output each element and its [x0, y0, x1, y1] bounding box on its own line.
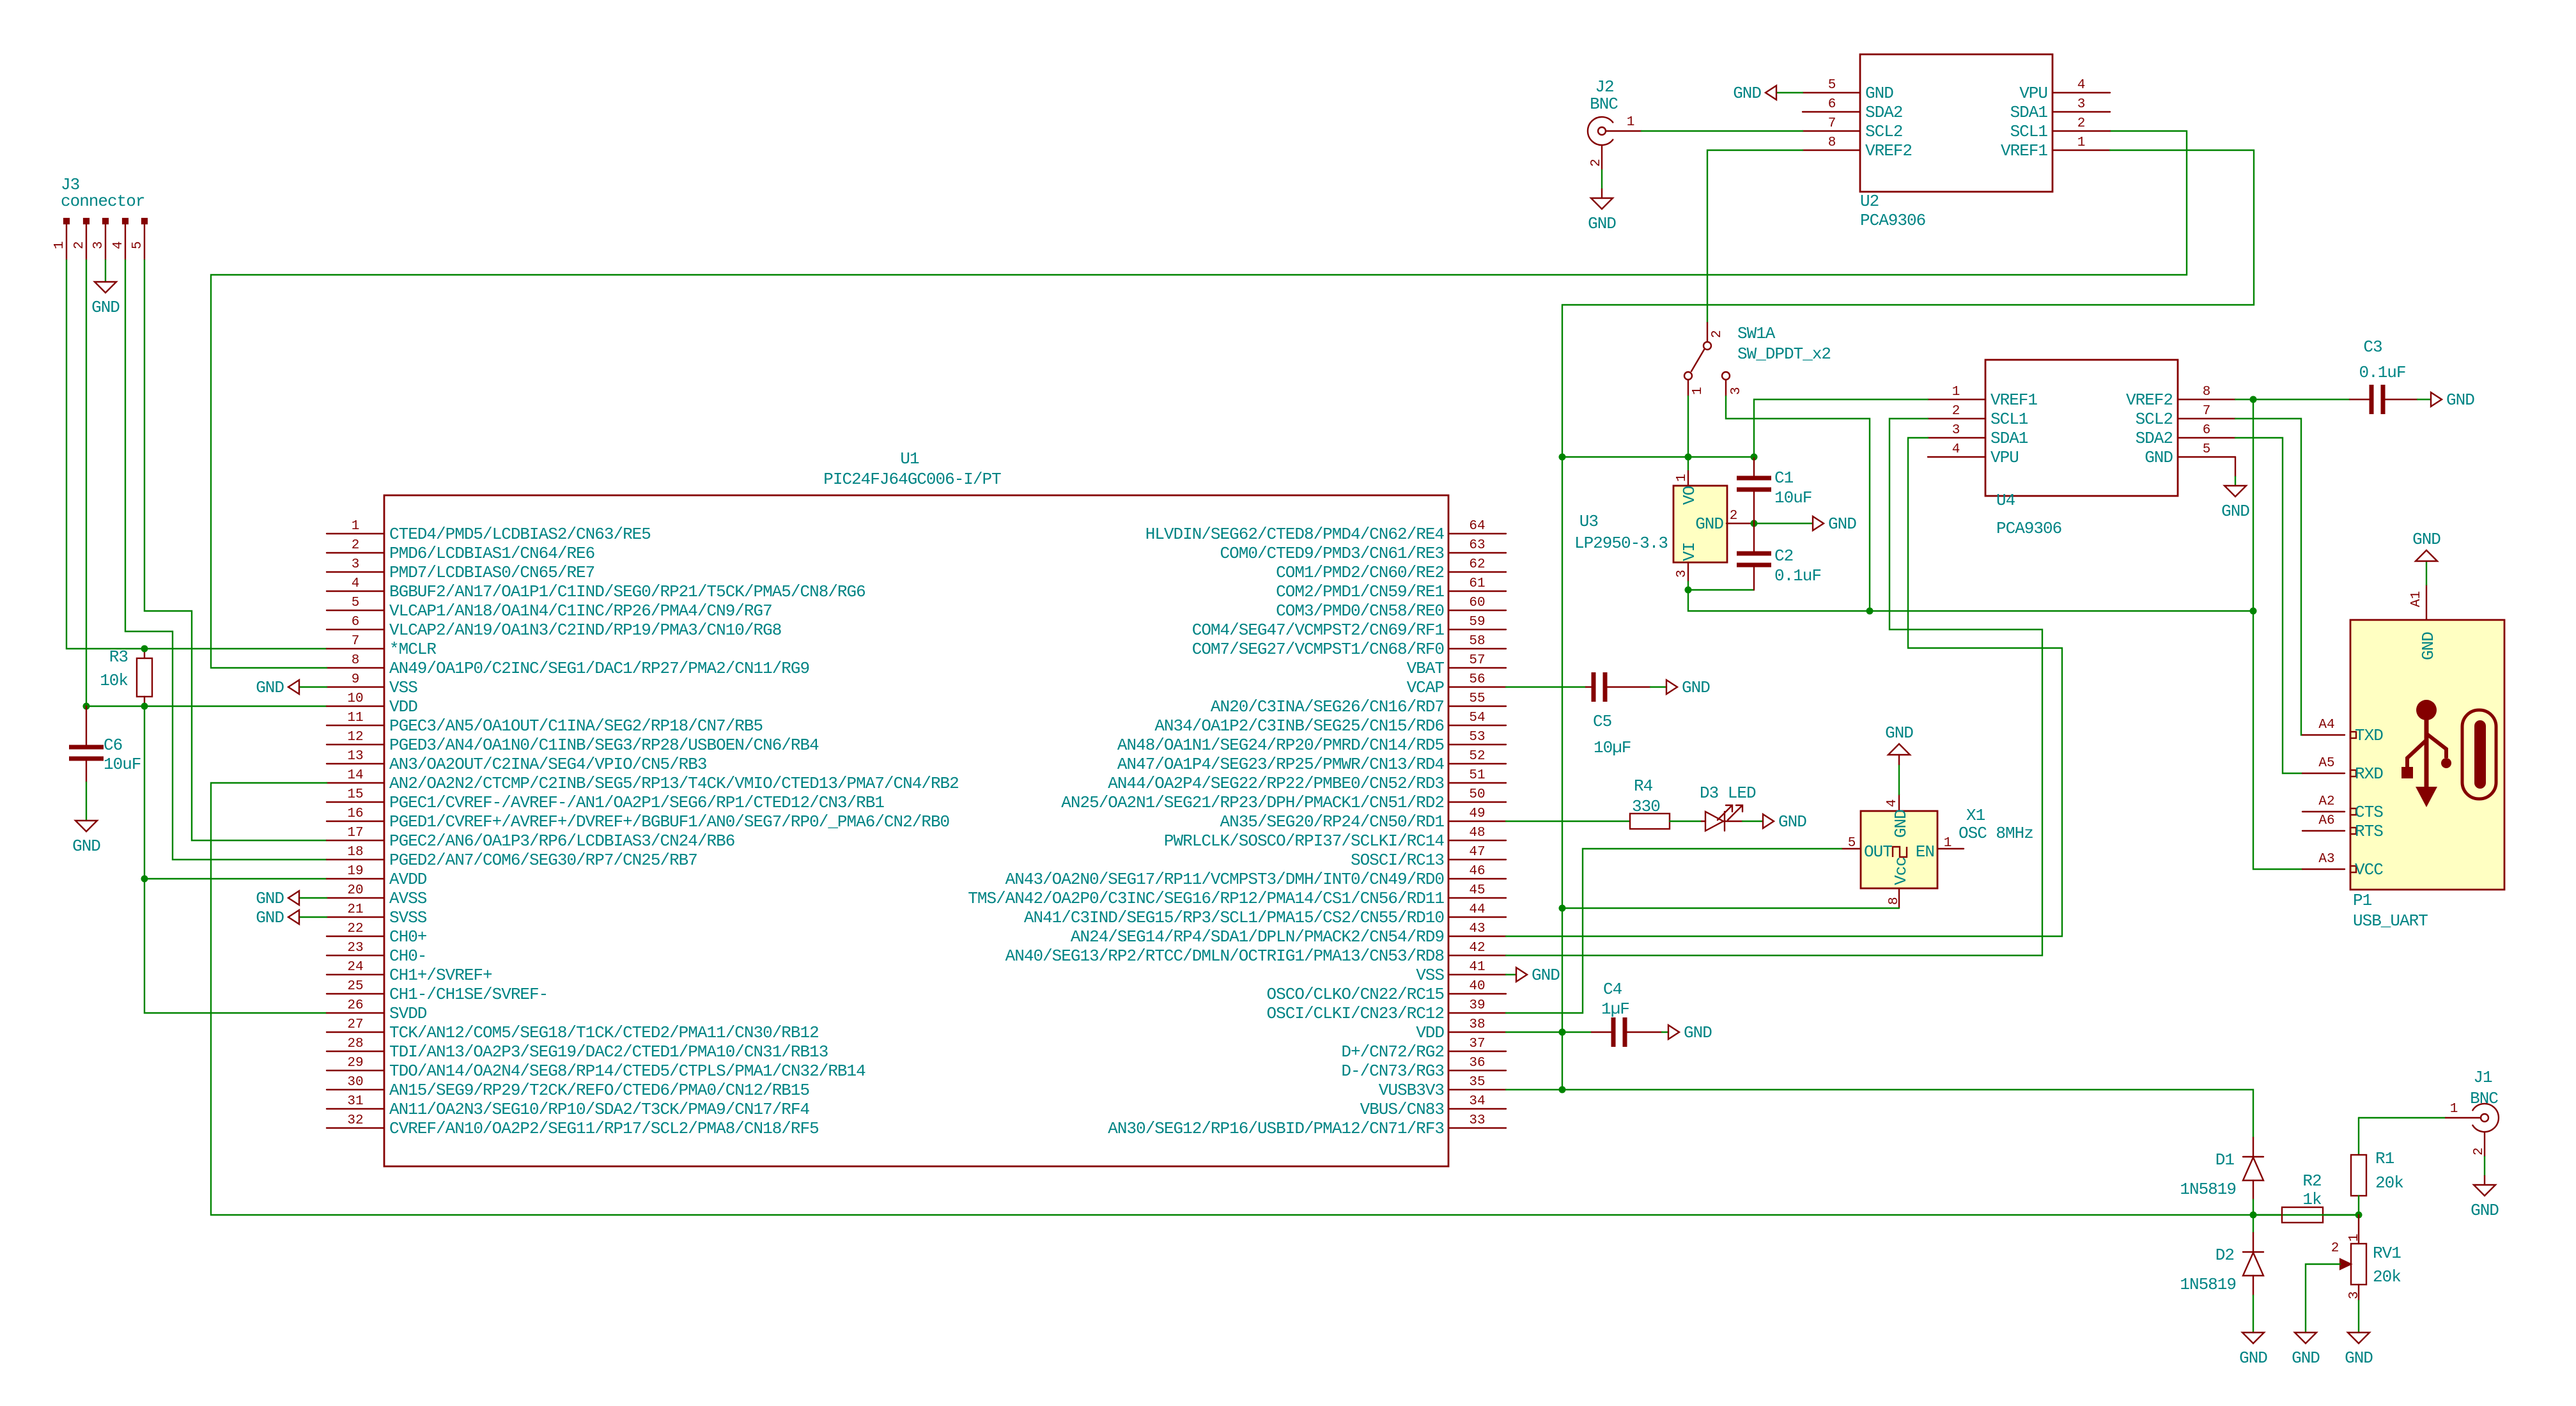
svg-text:22: 22 — [347, 922, 363, 936]
svg-text:PGED3/AN4/OA1N0/C1INB/SEG3/RP2: PGED3/AN4/OA1N0/C1INB/SEG3/RP28/USBOEN/C… — [389, 736, 819, 755]
P1 pin A4 TXD — [2302, 734, 2345, 736]
junction J3.2 / C6 — [83, 703, 90, 710]
junction SW pin3 / 5V rail — [1866, 608, 1874, 615]
svg-text:D+/CN72/RG2: D+/CN72/RG2 — [1341, 1042, 1444, 1062]
svg-text:AN49/OA1P0/C2INC/SEG1/DAC1/RP2: AN49/OA1P0/C2INC/SEG1/DAC1/RP27/PMA2/CN1… — [389, 659, 809, 678]
U2 pin 2 SCL1 — [2052, 130, 2110, 132]
U1 pin 34 VBUS/CN83 — [1448, 1108, 1506, 1109]
svg-text:VBUS/CN83: VBUS/CN83 — [1360, 1100, 1444, 1119]
svg-text:GND: GND — [1684, 1023, 1712, 1042]
ground J2 — [1591, 198, 1613, 209]
capacitor C5 — [1586, 686, 1594, 688]
svg-text:7: 7 — [1828, 116, 1836, 131]
U1 pin 4 BGBUF2/AN17/OA1P1/C1IND/SEG0/RP21/T5CK/PMA5/CN8/RG6 — [327, 591, 384, 592]
svg-text:R2: R2 — [2302, 1171, 2321, 1191]
SW1A pin 3 — [1722, 372, 1730, 380]
junction VI / C2 bottom — [1685, 587, 1692, 594]
svg-text:5: 5 — [352, 596, 360, 610]
U1 pin 23 CH0- — [327, 955, 384, 956]
svg-text:3: 3 — [2347, 1291, 2362, 1299]
J2 pin 2 — [1601, 145, 1602, 170]
potentiometer RV1 — [2358, 1215, 2359, 1244]
U1 pin 46 AN43/OA2N0/SEG17/RP11/VCMPST3/DMH/INT0/CN49/RD0 — [1448, 878, 1506, 879]
J3 pin 5 — [142, 219, 147, 224]
U1 pin 54 AN34/OA1P2/C3INB/SEG25/CN15/RD6 — [1448, 725, 1506, 726]
svg-text:A2: A2 — [2318, 794, 2334, 809]
J3 pin 2 — [84, 219, 89, 224]
svg-text:A5: A5 — [2318, 756, 2334, 771]
svg-text:2: 2 — [1730, 509, 1738, 523]
svg-text:GND: GND — [2419, 632, 2438, 660]
svg-text:EN: EN — [1916, 842, 1934, 861]
wire U1 pin14 AN2 to bottom rail — [211, 783, 2359, 1215]
U1 pin 13 AN3/OA2OUT/C2INA/SEG4/VPIO/CN5/RB3 — [327, 763, 384, 764]
junction 3.3V rail / X1 Vcc — [1559, 905, 1566, 912]
svg-text:A4: A4 — [2318, 718, 2334, 732]
svg-text:SVDD: SVDD — [389, 1004, 427, 1023]
svg-text:GND: GND — [256, 678, 284, 697]
svg-text:CTS: CTS — [2355, 803, 2383, 822]
U3 pin 3 VI — [1688, 562, 1689, 582]
svg-text:26: 26 — [347, 998, 363, 1013]
svg-text:U2: U2 — [1860, 192, 1879, 211]
svg-text:1k: 1k — [2302, 1190, 2322, 1209]
svg-text:AN3/OA2OUT/C2INA/SEG4/VPIO/CN5: AN3/OA2OUT/C2INA/SEG4/VPIO/CN5/RB3 — [389, 755, 707, 774]
svg-text:1: 1 — [2077, 135, 2086, 150]
svg-text:5: 5 — [2203, 442, 2211, 457]
svg-text:VLCAP2/AN19/OA1N3/C2IND/RP19/P: VLCAP2/AN19/OA1N3/C2IND/RP19/PMA3/CN10/R… — [389, 621, 781, 640]
U4 pin 7 SCL2 — [2178, 418, 2235, 419]
svg-text:42: 42 — [1469, 941, 1485, 955]
svg-text:AN34/OA1P2/C3INB/SEG25/CN15/RD: AN34/OA1P2/C3INB/SEG25/CN15/RD6 — [1154, 716, 1444, 736]
U1 pin 8 AN49/OA1P0/C2INC/SEG1/DAC1/RP27/PMA2/CN11/RG9 — [327, 667, 384, 668]
svg-text:40: 40 — [1469, 979, 1485, 994]
svg-text:COM1/PMD2/CN60/RE2: COM1/PMD2/CN60/RE2 — [1276, 563, 1444, 582]
svg-text:VLCAP1/AN18/OA1N4/C1INC/RP26/P: VLCAP1/AN18/OA1N4/C1INC/RP26/PMA4/CN9/RG… — [389, 601, 772, 621]
wire 5V to P1 VCC — [2253, 611, 2302, 869]
diode D3 LED — [1702, 821, 1705, 822]
svg-text:2: 2 — [1710, 330, 1725, 338]
svg-text:SVSS: SVSS — [389, 908, 427, 927]
wire VREF2 down to 5V rail — [2253, 399, 2254, 611]
svg-text:C2: C2 — [1774, 546, 1793, 566]
U1 pin 40 OSCO/CLKO/CN22/RC15 — [1448, 993, 1506, 994]
svg-text:OSC 8MHz: OSC 8MHz — [1959, 824, 2033, 843]
P1 pin A5 RXD — [2302, 773, 2345, 774]
svg-text:AN15/SEG9/RP29/T2CK/REFO/CTED6: AN15/SEG9/RP29/T2CK/REFO/CTED6/PMA0/CN12… — [389, 1081, 809, 1100]
U1 pin 61 COM2/PMD1/CN59/RE1 — [1448, 591, 1506, 592]
svg-text:AN25/OA2N1/SEG21/RP23/DPH/PMAC: AN25/OA2N1/SEG21/RP23/DPH/PMACK1/CN51/RD… — [1061, 793, 1444, 812]
voltage regulator U3 LP2950-3.3 — [1673, 486, 1727, 562]
svg-text:PMD7/LCDBIAS0/CN65/RE7: PMD7/LCDBIAS0/CN65/RE7 — [389, 563, 594, 582]
wire J3.4 to U1 pin18 — [125, 260, 327, 860]
svg-text:14: 14 — [347, 768, 363, 783]
wire C2 bottom link — [1688, 589, 1754, 591]
U1 pin 5 VLCAP1/AN18/OA1N4/C1INC/RP26/PMA4/CN9/RG7 — [327, 610, 384, 611]
U1 pin 64 HLVDIN/SEG62/CTED8/PMD4/CN62/RE4 — [1448, 533, 1506, 534]
svg-text:GND: GND — [1733, 84, 1761, 103]
U3 pin 1 VO — [1688, 471, 1689, 486]
U1 pin 43 AN24/SEG14/RP4/SDA1/DPLN/PMACK2/CN54/RD9 — [1448, 936, 1506, 937]
ground X1 — [1888, 744, 1910, 755]
svg-text:58: 58 — [1469, 634, 1485, 649]
svg-text:AVSS: AVSS — [389, 889, 427, 908]
U1 pin 28 TDI/AN13/OA2P3/SEG19/DAC2/CTED1/PMA10/CN31/RB13 — [327, 1051, 384, 1052]
wire VDD to U1 pin10 — [86, 706, 327, 707]
svg-text:9: 9 — [352, 672, 360, 687]
wire U4 SDA2 to P1 RXD — [2235, 438, 2302, 773]
ground D2 — [2242, 1333, 2264, 1343]
svg-text:A6: A6 — [2318, 814, 2334, 828]
svg-text:PCA9306: PCA9306 — [1996, 519, 2061, 538]
svg-text:8: 8 — [352, 653, 360, 668]
svg-text:VUSB3V3: VUSB3V3 — [1379, 1081, 1444, 1100]
svg-text:3: 3 — [91, 241, 106, 249]
junction R3 bottom / VDD — [141, 703, 148, 710]
svg-text:1: 1 — [1627, 115, 1635, 130]
svg-text:GND: GND — [2292, 1348, 2320, 1368]
svg-text:PIC24FJ64GC006-I/PT: PIC24FJ64GC006-I/PT — [823, 470, 1001, 489]
junction VDD / 3.3V rail — [1559, 1029, 1566, 1036]
U1 pin 16 PGED1/CVREF+/AVREF+/DVREF+/BGBUF1/AN0/SEG7/RP0/_PMA6/CN2/RB0 — [327, 821, 384, 822]
svg-text:5: 5 — [1828, 78, 1836, 93]
svg-text:TXD: TXD — [2355, 726, 2383, 745]
svg-text:48: 48 — [1469, 826, 1485, 840]
junction 3.3V rail / VUSB3V3 — [1559, 1086, 1566, 1093]
svg-text:AN2/OA2N2/CTCMP/C2INB/SEG5/RP1: AN2/OA2N2/CTCMP/C2INB/SEG5/RP13/T4CK/VMI… — [389, 774, 959, 793]
U1 pin 60 COM3/PMD0/CN58/RE0 — [1448, 610, 1506, 611]
wire U2 VREF1 to 3.3V rail — [1562, 150, 2254, 1090]
svg-text:4: 4 — [1885, 799, 1900, 807]
svg-text:34: 34 — [1469, 1094, 1485, 1109]
U1 pin 45 TMS/AN42/OA2P0/C3INC/SEG16/RP12/PMA14/CS1/CN56/RD11 — [1448, 897, 1506, 899]
svg-text:COM0/CTED9/PMD3/CN61/RE3: COM0/CTED9/PMD3/CN61/RE3 — [1220, 544, 1444, 563]
ground RV1 wiper — [2295, 1333, 2316, 1343]
svg-text:4: 4 — [2077, 78, 2086, 93]
svg-text:GND: GND — [1682, 678, 1710, 697]
svg-text:AN44/OA2P4/SEG22/RP22/PMBE0/CN: AN44/OA2P4/SEG22/RP22/PMBE0/CN52/RD3 — [1108, 774, 1444, 793]
ground flag U3 GND — [1813, 516, 1824, 530]
svg-text:COM4/SEG47/VCMPST2/CN69/RF1: COM4/SEG47/VCMPST2/CN69/RF1 — [1192, 621, 1445, 640]
U1 pin 56 VCAP — [1448, 686, 1506, 688]
svg-text:39: 39 — [1469, 998, 1485, 1013]
SW1A pin 1 — [1684, 372, 1692, 380]
svg-text:16: 16 — [347, 807, 363, 821]
svg-text:VREF2: VREF2 — [2126, 390, 2173, 410]
svg-text:49: 49 — [1469, 807, 1485, 821]
svg-text:57: 57 — [1469, 653, 1485, 668]
ground flag C4 — [1668, 1025, 1679, 1039]
svg-text:8: 8 — [2203, 385, 2211, 399]
U1 pin 50 AN25/OA2N1/SEG21/RP23/DPH/PMACK1/CN51/RD2 — [1448, 801, 1506, 803]
svg-text:43: 43 — [1469, 922, 1485, 936]
svg-text:3: 3 — [1729, 387, 1744, 395]
svg-text:31: 31 — [347, 1094, 363, 1109]
U1 pin 62 COM1/PMD2/CN60/RE2 — [1448, 571, 1506, 573]
svg-text:BNC: BNC — [2470, 1089, 2498, 1108]
U4 pin 5 GND — [2178, 456, 2235, 458]
svg-text:C1: C1 — [1774, 468, 1794, 488]
capacitor C6 — [86, 706, 87, 747]
wire SW1A pin3 to 5V rail — [1726, 396, 1870, 611]
svg-text:VO: VO — [1680, 486, 1699, 505]
ground flag U2 pin5 GND — [1776, 92, 1803, 93]
svg-text:VREF1: VREF1 — [2001, 141, 2047, 160]
wire U1 VUSB3V3 to D1 cathode — [1506, 1090, 2253, 1138]
wire U4 VREF2 to C3 — [2235, 399, 2350, 400]
junction C1 top — [1751, 454, 1758, 461]
svg-text:8: 8 — [1887, 897, 1902, 905]
svg-text:6: 6 — [2203, 423, 2211, 438]
X1 pin 5 OUT — [1842, 848, 1861, 849]
svg-text:PGEC2/AN6/OA1P3/RP6/LCDBIAS3/C: PGEC2/AN6/OA1P3/RP6/LCDBIAS3/CN24/RB6 — [389, 831, 734, 851]
svg-text:11: 11 — [347, 711, 363, 725]
U1 pin 59 COM4/SEG47/VCMPST2/CN69/RF1 — [1448, 629, 1506, 630]
ground flag C3 — [2431, 392, 2442, 406]
U1 pin 1 CTED4/PMD5/LCDBIAS2/CN63/RE5 — [327, 533, 384, 534]
junction AVDD tap — [141, 876, 148, 883]
X1 pin 8 Vcc — [1898, 888, 1900, 908]
svg-text:44: 44 — [1469, 902, 1485, 917]
capacitor C4 — [1592, 1031, 1613, 1033]
wire C3 to ground flag — [2417, 399, 2431, 400]
svg-text:HLVDIN/SEG62/CTED8/PMD4/CN62/R: HLVDIN/SEG62/CTED8/PMD4/CN62/RE4 — [1145, 525, 1445, 544]
svg-text:GND: GND — [1885, 723, 1913, 743]
svg-text:RV1: RV1 — [2373, 1244, 2401, 1263]
svg-text:C6: C6 — [104, 736, 122, 755]
svg-text:VREF1: VREF1 — [1990, 390, 2037, 410]
svg-text:GND: GND — [2446, 390, 2474, 410]
svg-text:60: 60 — [1469, 596, 1485, 610]
ground flag U1 pin41 — [1516, 968, 1527, 982]
U1 pin 19 AVDD — [327, 878, 384, 879]
svg-text:GND: GND — [1891, 810, 1911, 838]
svg-text:LP2950-3.3: LP2950-3.3 — [1574, 534, 1668, 553]
svg-text:GND: GND — [91, 298, 120, 317]
svg-text:COM7/SEG27/VCMPST1/CN68/RF0: COM7/SEG27/VCMPST1/CN68/RF0 — [1192, 640, 1444, 659]
capacitor C1 — [1753, 457, 1755, 478]
U1 pin 17 PGEC2/AN6/OA1P3/RP6/LCDBIAS3/CN24/RB6 — [327, 840, 384, 841]
ground flag C5 — [1666, 680, 1677, 694]
svg-text:PCA9306: PCA9306 — [1860, 211, 1925, 230]
ground RV1 pin3 — [2348, 1333, 2370, 1343]
svg-text:2: 2 — [1589, 158, 1604, 167]
U1 pin 35 VUSB3V3 — [1448, 1089, 1506, 1090]
svg-text:24: 24 — [347, 960, 363, 975]
svg-text:TDO/AN14/OA2N4/SEG8/RP14/CTED5: TDO/AN14/OA2N4/SEG8/RP14/CTED5/CTPLS/PMA… — [389, 1062, 865, 1081]
svg-text:AN41/C3IND/SEG15/RP3/SCL1/PMA1: AN41/C3IND/SEG15/RP3/SCL1/PMA15/CS2/CN55… — [1024, 908, 1444, 927]
U2 pin 7 SCL2 — [1803, 130, 1860, 132]
svg-text:1: 1 — [1691, 387, 1705, 395]
junction 3.3V rail / C4 VDD — [1559, 1029, 1566, 1036]
svg-text:PGED1/CVREF+/AVREF+/DVREF+/BGB: PGED1/CVREF+/AVREF+/DVREF+/BGBUF1/AN0/SE… — [389, 812, 949, 831]
svg-text:28: 28 — [347, 1037, 363, 1051]
svg-text:SW1A: SW1A — [1737, 324, 1776, 343]
svg-text:BGBUF2/AN17/OA1P1/C1IND/SEG0/R: BGBUF2/AN17/OA1P1/C1IND/SEG0/RP21/T5CK/P… — [389, 582, 865, 601]
svg-text:3: 3 — [1675, 569, 1689, 578]
svg-text:2: 2 — [2331, 1241, 2339, 1256]
ground C6 — [75, 821, 97, 831]
wire U1 pin41 VSS stub — [1506, 974, 1516, 975]
svg-text:18: 18 — [347, 845, 363, 860]
svg-text:7: 7 — [2203, 404, 2211, 419]
U1 pin 30 AN15/SEG9/RP29/T2CK/REFO/CTED6/PMA0/CN12/RB15 — [327, 1089, 384, 1090]
ground flag U1 pin9 VSS — [299, 686, 327, 688]
svg-text:59: 59 — [1469, 615, 1485, 630]
U4 pin 2 SCL1 — [1928, 418, 1985, 419]
svg-text:SDA2: SDA2 — [2136, 429, 2173, 448]
svg-text:OSCI/CLKI/CN23/RC12: OSCI/CLKI/CN23/RC12 — [1267, 1004, 1444, 1023]
svg-text:53: 53 — [1469, 730, 1485, 745]
svg-text:VREF2: VREF2 — [1865, 141, 1912, 160]
U1 pin 26 SVDD — [327, 1012, 384, 1014]
ground flag U1 pin20 AVSS — [299, 897, 327, 899]
U2 pin 5 GND — [1803, 92, 1860, 93]
U1 pin 42 AN40/SEG13/RP2/RTCC/DMLN/OCTRIG1/PMA13/CN53/RD8 — [1448, 955, 1506, 956]
svg-text:1: 1 — [2347, 1233, 2362, 1242]
svg-text:VPU: VPU — [2019, 84, 2047, 103]
svg-text:55: 55 — [1469, 691, 1485, 706]
J1 pin 1 — [2446, 1117, 2481, 1118]
svg-text:D-/CN73/RG3: D-/CN73/RG3 — [1341, 1062, 1444, 1081]
svg-text:62: 62 — [1469, 557, 1485, 572]
U2 pin 4 VPU — [2052, 92, 2110, 93]
svg-text:GND: GND — [2221, 502, 2249, 521]
U1 pin 6 VLCAP2/AN19/OA1N3/C2IND/RP19/PMA3/CN10/RG8 — [327, 629, 384, 630]
svg-text:TCK/AN12/COM5/SEG18/T1CK/CTED2: TCK/AN12/COM5/SEG18/T1CK/CTED2/PMA11/CN3… — [389, 1023, 819, 1042]
svg-text:37: 37 — [1469, 1037, 1485, 1051]
svg-text:VCAP: VCAP — [1407, 678, 1445, 697]
svg-text:1: 1 — [1675, 474, 1689, 482]
microcontroller U1 PIC24FJ64GC006-I/PT — [384, 495, 1448, 1166]
svg-text:35: 35 — [1469, 1075, 1485, 1090]
svg-text:330: 330 — [1632, 797, 1660, 816]
svg-text:1: 1 — [1944, 836, 1952, 851]
svg-text:CH1+/SVREF+: CH1+/SVREF+ — [389, 966, 492, 985]
U1 pin 33 AN30/SEG12/RP16/USBID/PMA12/CN71/RF3 — [1448, 1127, 1506, 1129]
svg-text:U1: U1 — [900, 449, 919, 468]
svg-text:U3: U3 — [1579, 512, 1598, 531]
svg-text:VCC: VCC — [2355, 860, 2383, 879]
wire SW1A pin1 to 3.3V rail — [1688, 396, 1689, 471]
P1 pin A2 CTS — [2302, 811, 2345, 812]
wire net SCL1-U2 to U1 pin8 — [211, 131, 2187, 668]
U4 pin 8 VREF2 — [2178, 399, 2235, 400]
SW1A arm — [1691, 350, 1704, 371]
ground U4 — [2224, 486, 2246, 497]
J3 pin 1 — [64, 219, 69, 224]
svg-text:10: 10 — [347, 691, 363, 706]
svg-text:Vcc: Vcc — [1891, 857, 1911, 885]
svg-text:6: 6 — [1828, 97, 1836, 112]
svg-text:1N5819: 1N5819 — [2180, 1180, 2236, 1199]
svg-text:0.1uF: 0.1uF — [1774, 566, 1821, 585]
U1 pin 10 VDD — [327, 706, 384, 707]
svg-text:50: 50 — [1469, 787, 1485, 802]
svg-text:4: 4 — [111, 241, 126, 249]
svg-text:20: 20 — [347, 883, 363, 898]
wire AVDD to U1 pin19 — [144, 878, 327, 879]
wire X1 OUT to U1 pin39 OSCI — [1506, 849, 1842, 1013]
ground P1 A1 — [2416, 550, 2437, 561]
wire X1 Vcc to 3.3V rail — [1562, 908, 1899, 909]
svg-text:10uF: 10uF — [1774, 488, 1812, 507]
svg-text:AN35/SEG20/RP24/CN50/RD1: AN35/SEG20/RP24/CN50/RD1 — [1220, 812, 1445, 831]
U1 pin 21 SVSS — [327, 916, 384, 918]
wire P1 A1 to ground — [2426, 561, 2427, 585]
svg-text:2: 2 — [72, 241, 87, 249]
ground flag U1 pin21 SVSS — [299, 916, 327, 918]
U1 pin 37 D+/CN72/RG2 — [1448, 1051, 1506, 1052]
junction SW1A pin1 / rail y715 — [1685, 454, 1692, 461]
U1 pin 48 PWRLCLK/SOSCO/RPI37/SCLKI/RC14 — [1448, 840, 1506, 841]
junction 3.3V rail / C1 rail — [1559, 454, 1566, 461]
svg-text:GND: GND — [72, 837, 100, 856]
svg-text:1: 1 — [1952, 385, 1960, 399]
J3 pin 4 — [123, 219, 128, 224]
svg-text:PWRLCLK/SOSCO/RPI37/SCLKI/RC14: PWRLCLK/SOSCO/RPI37/SCLKI/RC14 — [1164, 831, 1444, 851]
X1 pin 1 EN — [1938, 848, 1964, 849]
U1 pin 39 OSCI/CLKI/CN23/RC12 — [1448, 1012, 1506, 1014]
svg-text:29: 29 — [347, 1056, 363, 1070]
U2 pin 1 VREF1 — [2052, 150, 2110, 151]
svg-text:TMS/AN42/OA2P0/C3INC/SEG16/RP1: TMS/AN42/OA2P0/C3INC/SEG16/RP12/PMA14/CS… — [968, 889, 1444, 908]
svg-text:COM3/PMD0/CN58/RE0: COM3/PMD0/CN58/RE0 — [1276, 601, 1444, 621]
svg-text:CH1-/CH1SE/SVREF-: CH1-/CH1SE/SVREF- — [389, 985, 548, 1004]
U1 pin 11 PGEC3/AN5/OA1OUT/C1INA/SEG2/RP18/CN7/RB5 — [327, 725, 384, 726]
wire VDD down to AVDD and SVDD — [144, 706, 327, 1013]
U1 pin 3 PMD7/LCDBIAS0/CN65/RE7 — [327, 571, 384, 573]
wire J3.2 to VDD rail — [86, 260, 87, 706]
svg-text:PGEC3/AN5/OA1OUT/C1INA/SEG2/RP: PGEC3/AN5/OA1OUT/C1INA/SEG2/RP18/CN7/RB5 — [389, 716, 763, 736]
junction VREF2 / VCC net — [2250, 396, 2257, 403]
wire U1 VCAP to C5 — [1506, 686, 1586, 688]
svg-text:3: 3 — [2077, 97, 2086, 112]
I2C level shifter U4 PCA9306 — [1985, 360, 2178, 496]
U1 pin 41 VSS — [1448, 974, 1506, 975]
svg-text:33: 33 — [1469, 1113, 1485, 1128]
svg-text:AVDD: AVDD — [389, 870, 427, 889]
U1 pin 53 AN48/OA1N1/SEG24/RP20/PMRD/CN14/RD5 — [1448, 744, 1506, 745]
svg-text:P1: P1 — [2353, 891, 2372, 910]
U1 pin 38 VDD — [1448, 1031, 1506, 1033]
svg-text:GND: GND — [2345, 1348, 2373, 1368]
resistor R4 — [1630, 814, 1670, 829]
svg-text:30: 30 — [347, 1075, 363, 1090]
svg-text:AN20/C3INA/SEG26/CN16/RD7: AN20/C3INA/SEG26/CN16/RD7 — [1211, 697, 1444, 716]
U1 pin 63 COM0/CTED9/PMD3/CN61/RE3 — [1448, 552, 1506, 553]
svg-text:J2: J2 — [1595, 77, 1613, 97]
svg-text:61: 61 — [1469, 576, 1485, 591]
wire U1 VDD pin38 to C4 — [1506, 1031, 1592, 1033]
svg-text:R4: R4 — [1634, 776, 1653, 796]
wire U4 GND pin to ground — [2235, 457, 2236, 477]
svg-text:VBAT: VBAT — [1407, 659, 1445, 678]
svg-text:PGED2/AN7/COM6/SEG30/RP7/CN25/: PGED2/AN7/COM6/SEG30/RP7/CN25/RB7 — [389, 851, 697, 870]
wire U4 SDA1 to U1 pin43 — [1506, 438, 2062, 936]
svg-text:RXD: RXD — [2355, 764, 2383, 784]
U1 pin 15 PGEC1/CVREF-/AVREF-/AN1/OA2P1/SEG6/RP1/CTED12/CN3/RB1 — [327, 801, 384, 803]
svg-text:CH0-: CH0- — [389, 946, 426, 966]
svg-text:VDD: VDD — [389, 697, 417, 716]
svg-text:1: 1 — [52, 241, 67, 249]
capacitor C3 — [2350, 399, 2371, 400]
svg-text:GND: GND — [256, 889, 284, 908]
U3 pin 2 GND — [1726, 523, 1754, 524]
U1 pin 57 VBAT — [1448, 667, 1506, 668]
svg-text:8: 8 — [1828, 135, 1836, 150]
svg-text:D2: D2 — [2215, 1246, 2234, 1265]
